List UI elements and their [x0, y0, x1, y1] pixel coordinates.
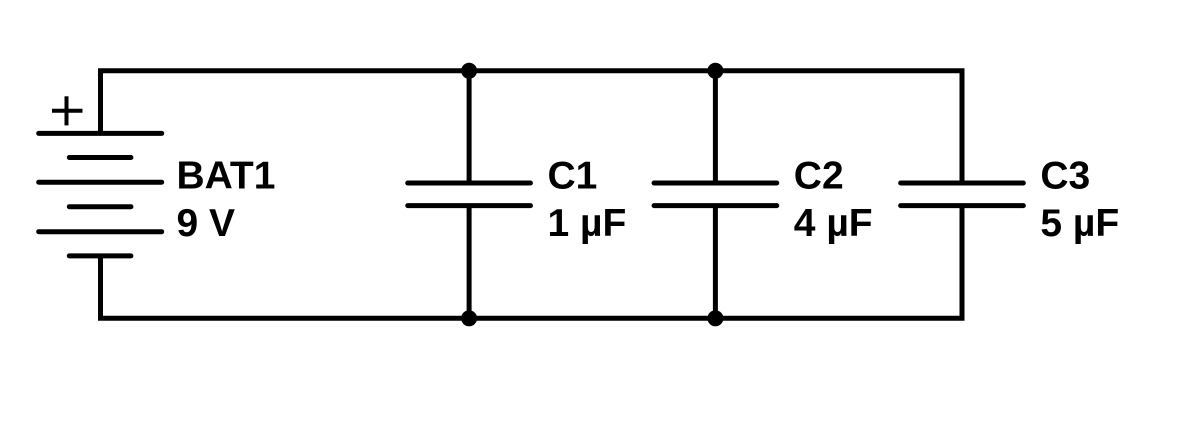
capacitor C3 bottom plate: [901, 203, 1024, 208]
wire: bottom rail (battery - terminal to C3, with corners): [101, 206, 963, 319]
svg-text:1 µF: 1 µF: [548, 202, 627, 245]
capacitor C3: [901, 183, 1024, 206]
wire: C1 top lead: [467, 71, 472, 183]
capacitor C1 bottom plate: [408, 203, 531, 208]
battery BAT1 plate long 2: [39, 180, 162, 185]
wire: C2 top lead: [713, 71, 718, 183]
junction dot: top node at C1: [461, 63, 477, 79]
wire: C2 bottom lead: [713, 206, 718, 319]
capacitor C2 bottom plate: [654, 203, 777, 208]
wire: top rail (battery + terminal to C3, with corners): [101, 71, 963, 183]
capacitor C2: [654, 71, 777, 318]
svg-text:BAT1: BAT1: [177, 155, 276, 198]
svg-text:9 V: 9 V: [177, 202, 236, 245]
junction dot: bottom node at C2: [707, 310, 723, 326]
battery BAT1 plate long 1 (positive): [39, 131, 162, 136]
junction dot: bottom node at C1: [461, 310, 477, 326]
capacitor C1 top plate: [408, 181, 531, 186]
svg-text:5 µF: 5 µF: [1040, 202, 1119, 245]
capacitor C2 top plate: [654, 181, 777, 186]
battery BAT1: [39, 133, 162, 256]
svg-text:C3: C3: [1040, 155, 1090, 198]
wire: C1 bottom lead: [467, 206, 472, 319]
svg-text:4 µF: 4 µF: [794, 202, 873, 245]
capacitor C3 top plate: [901, 181, 1024, 186]
battery BAT1 polarity plus sign: [52, 96, 83, 125]
svg-text:C1: C1: [548, 155, 598, 198]
junction dot: top node at C2: [707, 63, 723, 79]
svg-text:C2: C2: [794, 155, 844, 198]
battery BAT1 plate long 3: [39, 229, 162, 234]
battery BAT1 plate short 2: [69, 204, 131, 209]
battery BAT1 plate short 1: [69, 155, 131, 160]
capacitor C1: [408, 71, 531, 318]
battery BAT1 plate short 3 (negative): [69, 253, 131, 258]
